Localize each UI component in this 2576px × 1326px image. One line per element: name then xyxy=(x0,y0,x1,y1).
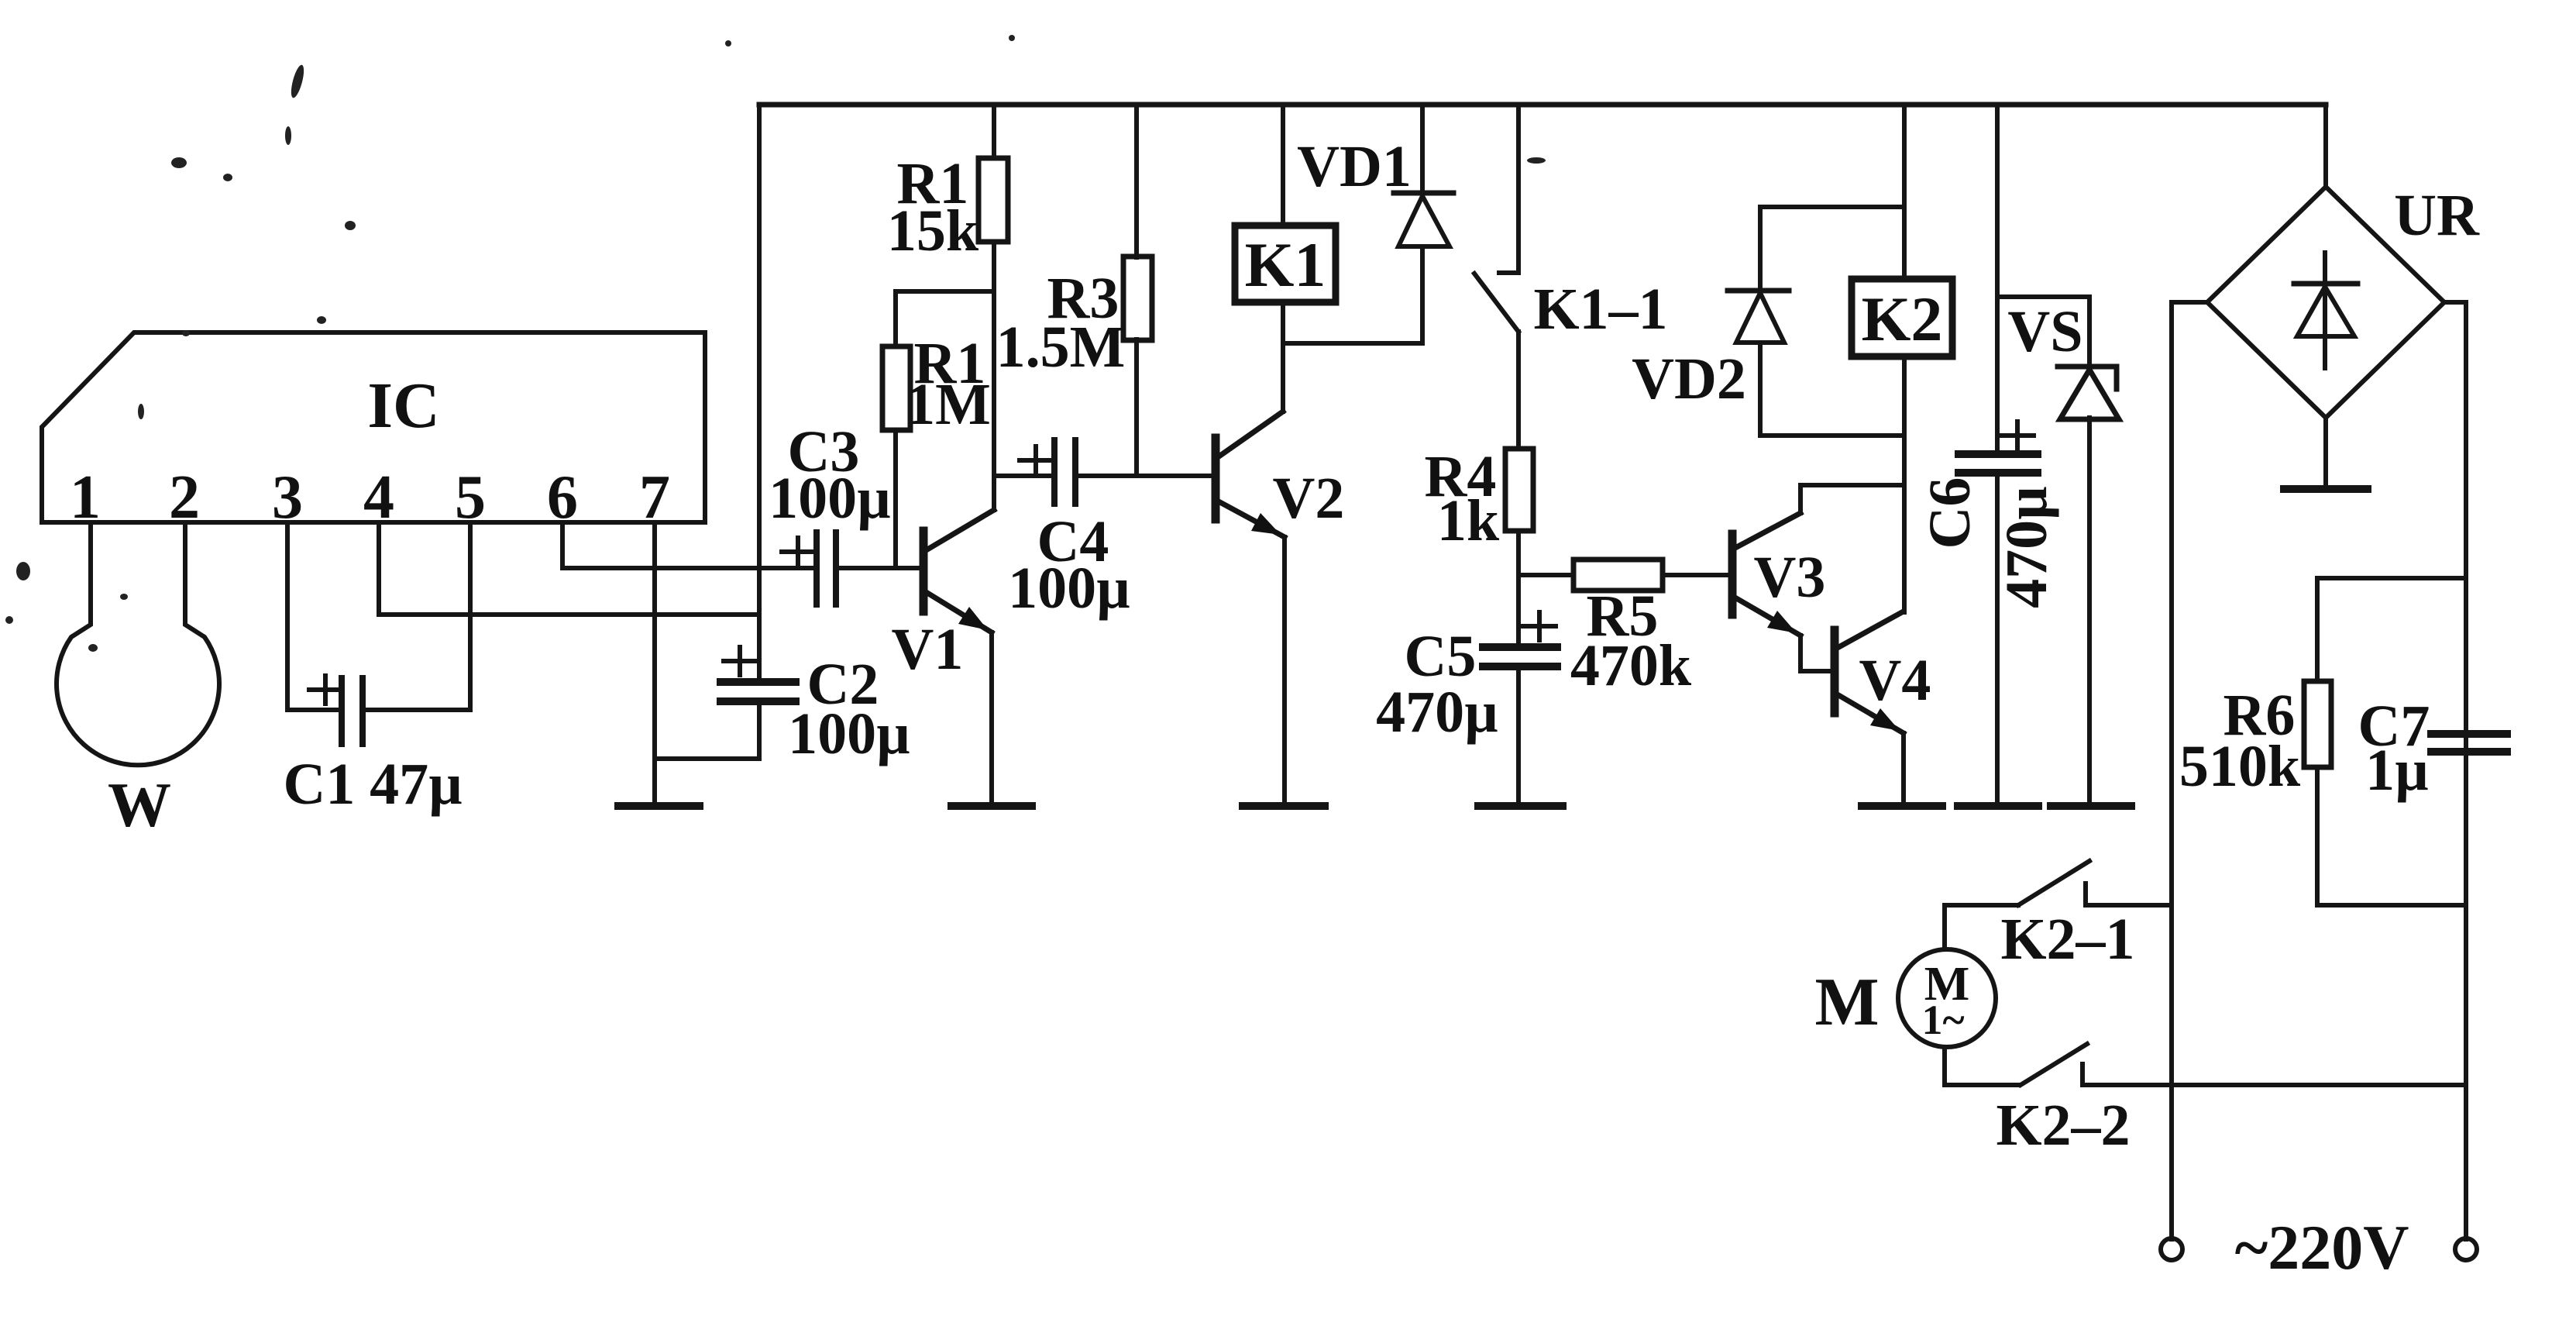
svg-text:1M: 1M xyxy=(906,372,991,437)
svg-text:K1: K1 xyxy=(1245,229,1326,300)
svg-text:W: W xyxy=(108,770,171,840)
wire K1 to VD1 bottom xyxy=(1283,341,1422,346)
wire pin7 down xyxy=(652,522,657,803)
capacitor C4 xyxy=(1051,440,1058,504)
wire pin4 to supply node xyxy=(379,522,759,615)
motor M xyxy=(1898,949,1996,1047)
wire R5 to V3 base xyxy=(1663,573,1732,577)
transistor V1 xyxy=(920,531,928,611)
svg-text:K2: K2 xyxy=(1862,284,1943,354)
capacitor C6 xyxy=(1995,105,2000,454)
svg-text:IC: IC xyxy=(367,370,439,442)
capacitor C3 xyxy=(813,532,820,604)
transistor V3 xyxy=(1728,534,1737,615)
wire R4 to node xyxy=(1516,531,1521,575)
wire UR right vertex down right rail xyxy=(2444,302,2466,1239)
ground V1 xyxy=(951,802,1032,810)
wire node to R5 xyxy=(1518,573,1573,577)
wire V3 emitter to V4 base xyxy=(1800,635,1835,671)
wire R1/R2 branch xyxy=(896,291,994,346)
resistor R3 1.5M xyxy=(1134,105,1139,257)
wire R1 bottom to V1 collector node xyxy=(992,243,996,510)
wire V4 emitter to ground xyxy=(1901,733,1906,803)
diode VD2 xyxy=(1760,205,1904,209)
svg-text:VD1: VD1 xyxy=(1297,134,1412,199)
capacitor C1 xyxy=(339,678,345,744)
svg-text:~220V: ~220V xyxy=(2235,1212,2409,1283)
wire K2 to V4 collector xyxy=(1902,356,1907,612)
svg-text:K2–1: K2–1 xyxy=(2000,907,2134,972)
wire UR left vertex down to AC terminal xyxy=(2172,302,2207,1239)
wire switch to R4 xyxy=(1516,332,1521,449)
capacitor C2 xyxy=(721,678,796,686)
svg-text:VS: VS xyxy=(2007,299,2082,364)
microphone W leads and body xyxy=(57,522,219,765)
wire bus left drop to C2 xyxy=(757,105,762,682)
wire C4 branch xyxy=(994,474,1054,478)
resistor R4 1k xyxy=(1505,449,1533,531)
wire UR bottom to ground xyxy=(2323,418,2328,486)
svg-text:C6: C6 xyxy=(1917,477,1983,549)
switch K2-1 xyxy=(2086,883,2172,905)
svg-text:470µ: 470µ xyxy=(1376,680,1498,745)
bridge rectifier UR xyxy=(2323,105,2328,187)
capacitor C7 xyxy=(2431,730,2507,738)
svg-text:1µ: 1µ xyxy=(2365,738,2429,803)
wire K1 to V2 collector xyxy=(1281,302,1285,412)
svg-text:100µ: 100µ xyxy=(769,466,891,531)
IC U1 box xyxy=(42,332,705,522)
wire switch to motor xyxy=(1942,905,1947,949)
ground pin7 xyxy=(618,802,700,810)
ground V2 xyxy=(1243,802,1325,810)
wire pin3 to C1 xyxy=(287,522,342,710)
svg-text:47µ: 47µ xyxy=(370,752,463,817)
ground C6 xyxy=(1958,802,2038,810)
resistor R6 510k xyxy=(2304,681,2331,767)
ground VS xyxy=(2051,802,2131,810)
svg-text:15k: 15k xyxy=(887,198,979,263)
svg-text:V4: V4 xyxy=(1859,648,1931,713)
svg-text:1.5M: 1.5M xyxy=(996,315,1126,380)
ground C5 xyxy=(1478,802,1563,810)
diode VD1 xyxy=(1420,105,1425,196)
resistor R2 1M (marked R1) xyxy=(882,346,910,430)
ground UR xyxy=(2284,485,2368,493)
resistor R1 15k xyxy=(992,105,996,158)
switch K2-2 xyxy=(1945,1083,2018,1087)
wire C5 to ground xyxy=(1516,666,1521,803)
C5 polarity plus xyxy=(1523,612,1556,640)
svg-text:100µ: 100µ xyxy=(1008,556,1130,621)
svg-text:V1: V1 xyxy=(892,617,964,682)
svg-text:V2: V2 xyxy=(1273,466,1345,531)
svg-text:1~: 1~ xyxy=(1921,997,1964,1043)
svg-text:470µ: 470µ xyxy=(1994,486,2059,608)
zener VS xyxy=(1997,294,2089,299)
wire C6 to ground xyxy=(1995,473,2000,803)
wire motor to K2-2 xyxy=(1942,1047,1947,1085)
AC terminal right xyxy=(2455,1238,2477,1260)
resistor R5 470k xyxy=(1573,560,1663,591)
svg-text:K2–2: K2–2 xyxy=(1996,1093,2130,1158)
wire C2 bottom to pin7 xyxy=(655,701,759,759)
svg-text:V3: V3 xyxy=(1754,545,1826,610)
capacitor C5 xyxy=(1483,643,1557,651)
wire node to C5 xyxy=(1516,575,1521,647)
wire R6 bottom branch xyxy=(2317,767,2466,905)
svg-text:K1–1: K1–1 xyxy=(1533,277,1667,342)
C3 polarity plus xyxy=(782,538,814,566)
wire R2 to base node xyxy=(893,430,898,568)
C4 polarity plus xyxy=(1020,446,1052,474)
wire V1 emitter to ground xyxy=(989,632,994,803)
wire V3 collector to K2 line xyxy=(1800,485,1904,513)
svg-text:C1: C1 xyxy=(284,752,356,817)
relay coil K2 xyxy=(1902,105,1907,279)
wire C4 to V2 base xyxy=(1075,474,1216,478)
transistor V4 xyxy=(1831,630,1839,713)
ground V4 xyxy=(1862,802,1942,810)
svg-text:UR: UR xyxy=(2394,183,2480,248)
svg-text:510k: 510k xyxy=(2179,734,2301,799)
svg-text:470k: 470k xyxy=(1570,633,1692,698)
wire R3 bottom to coupling node xyxy=(1134,339,1139,476)
AC terminal left xyxy=(2161,1238,2182,1260)
wire pin6 to C3 xyxy=(562,522,817,568)
wire V2 emitter to ground xyxy=(1282,537,1287,803)
wire C1 to pin5 xyxy=(363,522,470,710)
switch K1-1 xyxy=(1499,105,1518,273)
C1 polarity plus xyxy=(309,676,342,704)
wire top supply bus xyxy=(759,102,2326,108)
scan specks xyxy=(5,35,1546,652)
transistor V2 xyxy=(1212,438,1220,519)
svg-text:100µ: 100µ xyxy=(788,701,910,766)
svg-text:VD2: VD2 xyxy=(1632,346,1746,412)
svg-text:M: M xyxy=(1814,965,1879,1040)
C2 polarity plus xyxy=(724,647,756,675)
relay coil K1 xyxy=(1281,105,1285,226)
svg-text:1: 1 xyxy=(70,463,101,532)
svg-text:1k: 1k xyxy=(1437,488,1500,553)
wire R6 top branch xyxy=(2317,578,2466,681)
wire C3 to V1 base xyxy=(836,566,923,570)
